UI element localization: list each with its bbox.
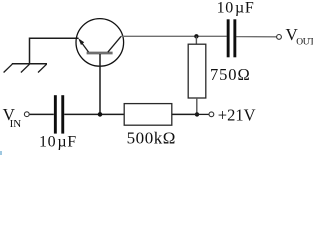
wire junction to +21V terminal (197, 113, 209, 115)
wire 750 bottom lead (196, 98, 198, 114)
wire Vin to C1 (30, 113, 54, 115)
ground (4, 64, 47, 73)
terminal Vin (24, 112, 29, 117)
svg-text:OUT: OUT (296, 37, 313, 47)
svg-text:500kΩ: 500kΩ (127, 128, 176, 147)
transistor Q1 (76, 19, 124, 67)
svg-text:750Ω: 750Ω (210, 65, 251, 84)
wire R1 to +21V junction (172, 113, 197, 115)
resistor R1 500kohm (124, 104, 172, 126)
resistor R2 750ohm (188, 44, 206, 98)
node +21V junction (195, 112, 199, 116)
svg-text:10µF: 10µF (217, 0, 255, 17)
collector wire (121, 35, 227, 37)
capacitor C1 10uF (54, 95, 64, 133)
base lead wire (99, 54, 101, 114)
svg-text:+21V: +21V (218, 105, 256, 124)
terminal +21V (209, 112, 214, 117)
wire capacitor to Vout (236, 36, 276, 38)
svg-text:10µF: 10µF (39, 134, 77, 151)
node collector junction (194, 34, 198, 38)
wire C1 to R1 (64, 113, 124, 115)
wire emitter-to-ground (30, 38, 79, 63)
wire 750 top lead (195, 36, 197, 44)
terminal Vout (277, 35, 282, 40)
svg-text:IN: IN (10, 118, 22, 130)
capacitor C2 10uF (227, 19, 237, 57)
corner artifact (0, 151, 2, 155)
node base junction (98, 112, 103, 117)
